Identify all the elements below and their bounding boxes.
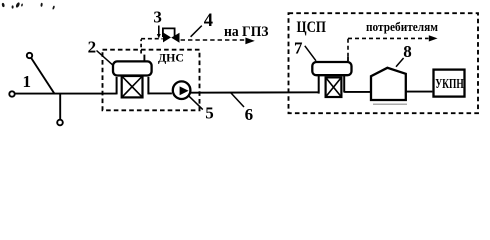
- valve actuator bracket: [163, 28, 175, 37]
- svg-text:5: 5: [205, 103, 214, 122]
- label 2: [88, 37, 97, 56]
- flowline station2 outlet to pump: [148, 92, 172, 94]
- UKPN block: [434, 70, 465, 97]
- svg-text:ДНС: ДНС: [158, 51, 184, 65]
- flowline diagonal from upper well: [31, 58, 54, 94]
- gas dashed riser: [140, 39, 142, 53]
- gas dashed line to GPZ arrow: [181, 39, 245, 41]
- leader line for label 6: [231, 93, 244, 107]
- arrowhead to GPZ: [245, 38, 254, 45]
- label 6: [245, 105, 254, 124]
- leader line for label 4: [191, 26, 202, 37]
- CSP dashed boundary: [289, 13, 479, 113]
- label 1: [23, 72, 32, 91]
- grey scan ghost under unit 8: [373, 103, 407, 105]
- svg-text:3: 3: [153, 7, 162, 26]
- leader line for label 2: [97, 51, 113, 65]
- separator tank 7: [312, 62, 351, 75]
- gas stub tank 7: [347, 57, 349, 61]
- DNS station dashed boundary: [103, 50, 200, 111]
- label 4: [204, 11, 213, 31]
- arrowhead to consumers: [429, 35, 438, 41]
- label 3: [153, 7, 162, 26]
- label DNS: [158, 51, 184, 65]
- pump unit box with X (station 7): [326, 77, 342, 97]
- leader line for label 7: [305, 46, 316, 61]
- separator tank 2: [113, 61, 152, 75]
- svg-text:7: 7: [294, 39, 303, 58]
- pump unit box with X (station 2): [122, 76, 143, 97]
- flowline unit 8 to UKPN: [406, 91, 433, 93]
- label 8: [403, 42, 412, 61]
- well terminal circle lower: [57, 120, 63, 126]
- pump 5 circle: [173, 81, 191, 99]
- label CSP: [297, 19, 327, 36]
- scan specks (decorative) placed before first labelled element: [1, 2, 55, 10]
- text na GPZ: [224, 24, 269, 40]
- svg-text:потребителям: потребителям: [366, 19, 438, 34]
- well terminal circle left: [9, 91, 14, 96]
- svg-text:на ГПЗ: на ГПЗ: [224, 24, 269, 40]
- label 5: [205, 103, 214, 122]
- svg-text:4: 4: [204, 11, 213, 31]
- well terminal circle upper: [27, 53, 32, 58]
- flowline main horizontal from wells: [15, 93, 117, 95]
- leader line for label 5: [189, 96, 203, 109]
- svg-text:УКПН: УКПН: [435, 76, 464, 91]
- trunk pipeline pump to CSP: [190, 91, 318, 93]
- valve 3 bowtie: [163, 32, 180, 42]
- tank legs of separator 2: [117, 77, 149, 94]
- gas stub from tank 2 top: [143, 55, 145, 61]
- flowline vertical to lower well: [59, 94, 61, 120]
- text potrebitelyam: [366, 19, 438, 34]
- svg-text:1: 1: [23, 72, 32, 91]
- svg-text:6: 6: [245, 105, 254, 124]
- gas dashed line to valve: [141, 38, 163, 40]
- label 7: [294, 39, 303, 58]
- pointer arrow from label 3: [157, 26, 161, 39]
- svg-text:2: 2: [88, 37, 97, 56]
- treatment unit 8 tank: [371, 68, 406, 100]
- svg-text:ЦСП: ЦСП: [297, 19, 327, 36]
- leader line for label 8: [396, 58, 404, 67]
- svg-text:8: 8: [403, 42, 412, 61]
- flowline station7 to unit 8: [344, 91, 371, 93]
- gas dashed line to consumers: [348, 38, 429, 56]
- tank legs of separator 7: [319, 76, 345, 94]
